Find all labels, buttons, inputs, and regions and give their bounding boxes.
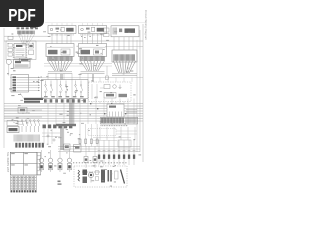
wire: module3 feed xyxy=(106,66,108,76)
socket X3 xyxy=(58,163,62,170)
label: option note xyxy=(119,94,128,97)
wire: HL4 leads xyxy=(69,150,71,172)
label: K0 mark xyxy=(29,45,32,47)
label: U12 die xyxy=(95,51,99,54)
wire: U3 feed line xyxy=(105,46,143,48)
label: J2b mark xyxy=(21,59,29,61)
relay K6 xyxy=(7,121,18,126)
wire: solenoid tails xyxy=(99,159,134,165)
label: U4 pin rows xyxy=(16,49,25,56)
wire: M1 lead xyxy=(8,64,10,75)
wire: dashed box drops xyxy=(100,78,132,83)
node: T1 tick row xyxy=(48,72,72,74)
diode D2 xyxy=(8,48,12,52)
connector J2b xyxy=(20,58,31,61)
wire: U2 risers xyxy=(83,23,103,26)
wire: option box stubs xyxy=(92,84,104,99)
connector J4 hatch xyxy=(15,64,28,67)
motor M1 xyxy=(6,59,11,64)
label: A2 text block xyxy=(81,50,91,55)
capacitor C8 xyxy=(96,171,99,175)
connector J8 comb right xyxy=(126,118,137,123)
wire: right lower drops xyxy=(100,127,135,140)
wire: U3 drops xyxy=(114,37,133,50)
lamp E2 xyxy=(53,139,55,141)
relay K8 xyxy=(115,171,119,179)
transformer T3 winding hatch xyxy=(114,54,135,61)
controller frame xyxy=(6,41,36,60)
lamp HL1 xyxy=(39,158,43,162)
sensor B1 xyxy=(74,145,82,153)
label: B2 text xyxy=(109,106,116,108)
legend table grid xyxy=(10,152,37,175)
label: harness callout row1 xyxy=(24,98,43,100)
label: X1 mark xyxy=(40,165,43,168)
wire: right vertical bus xyxy=(139,30,141,152)
lamp HL3 xyxy=(58,158,62,162)
capacitor C1 xyxy=(8,53,12,56)
ground symbol xyxy=(119,85,122,89)
lamp HL4 xyxy=(67,158,71,162)
label: accessory B text xyxy=(101,170,105,183)
wire: harness bundle T1 down xyxy=(61,74,63,80)
wire: U2 drops xyxy=(83,34,102,44)
terminal column TB0 cells xyxy=(37,156,41,175)
connector U4 pin ticks xyxy=(13,45,27,58)
motor M3 xyxy=(88,172,93,177)
wire: right mid stubs xyxy=(93,131,137,141)
svg-text:Circuit Wiring Diagram: Circuit Wiring Diagram xyxy=(144,10,148,41)
module U2 top box xyxy=(79,26,107,34)
lamp E1 xyxy=(47,135,49,137)
wire: page right border xyxy=(142,24,144,162)
wire: solenoid tick marks xyxy=(98,150,136,152)
label: J1 note xyxy=(30,26,36,28)
module U1 top box xyxy=(48,26,76,34)
wire: M3 stem xyxy=(90,178,92,183)
fuse box F10 xyxy=(18,108,27,114)
label: accessory A text upper xyxy=(83,170,88,176)
label: diag text xyxy=(15,61,21,63)
module diag box xyxy=(14,60,31,69)
label: accessory marks xyxy=(58,181,62,185)
option box 2 (dashed) xyxy=(88,129,116,136)
label: B1 xyxy=(75,146,80,149)
wire: T1 fan-out xyxy=(48,61,72,71)
switch row S20-S24 xyxy=(21,120,40,132)
connector J6 feet row xyxy=(44,99,86,102)
timer U6 xyxy=(104,93,116,99)
wire: right vertical bus 2 xyxy=(136,40,138,152)
wire: SW1 dividers xyxy=(57,80,72,99)
wire: HL2 leads xyxy=(50,150,52,172)
connector U2 pin comb xyxy=(81,34,104,36)
label: U6 text xyxy=(106,94,114,97)
terminal strip TB1 ladder comb xyxy=(11,176,37,190)
label: X4 mark xyxy=(68,165,71,168)
diode D1 xyxy=(8,44,12,48)
label: U11 die xyxy=(63,51,67,54)
sensor B0 xyxy=(64,144,71,150)
wire: left lower links xyxy=(42,129,60,144)
wire: lower drops xyxy=(80,124,97,147)
wire: mid horizontal link xyxy=(10,77,143,79)
module B2 box xyxy=(107,104,124,117)
lamp HL2 xyxy=(48,158,52,162)
wire: main harness bus band xyxy=(4,104,143,122)
terminal column TB0 xyxy=(37,152,41,175)
wire: center bundle lower xyxy=(61,124,64,150)
wire: solenoid feeds xyxy=(99,140,134,155)
resistor R1 xyxy=(8,36,13,39)
wire: harness bundle T2 down xyxy=(93,74,94,82)
buzzer BZ1 xyxy=(113,85,117,89)
label: B0 xyxy=(65,145,69,148)
relay K5 xyxy=(104,85,110,89)
accessory option box (dashed) xyxy=(74,166,127,187)
wire: page left border xyxy=(3,28,5,148)
contact S2 xyxy=(92,27,95,31)
transformer T2 winding hatch xyxy=(80,56,105,61)
connector J2 pin hatch xyxy=(18,31,35,35)
module A1 main box xyxy=(46,44,74,57)
wire: option box feed drops xyxy=(92,102,124,104)
connector J3 pins xyxy=(113,28,116,35)
wire: page top rule xyxy=(45,22,146,24)
connector U1 pin comb xyxy=(50,34,73,36)
connector block J5 xyxy=(11,75,29,93)
wire: left harness lines xyxy=(4,110,42,117)
transformer T1 winding hatch xyxy=(48,56,73,61)
label: SW1 terminal ids xyxy=(44,96,84,97)
socket X2 xyxy=(49,163,53,170)
label: accessory A text lower xyxy=(83,177,88,184)
switch contacts S10-S15 xyxy=(45,81,83,97)
socket X1 xyxy=(40,163,44,170)
label: table cell headers xyxy=(11,153,28,165)
module U3 top box xyxy=(111,26,139,37)
fuse F2 xyxy=(86,28,90,30)
IC U11 xyxy=(61,49,70,55)
svg-text:S.E. PARTS LIST: S.E. PARTS LIST xyxy=(6,152,10,173)
wire: inter-module links xyxy=(44,64,112,67)
option box (dashed) xyxy=(89,82,132,102)
label: F10 xyxy=(20,109,25,112)
wire: bus vertical drops xyxy=(48,99,134,125)
connector J10 dark row xyxy=(15,143,44,148)
inductor L1 (vertical coil) xyxy=(78,170,80,181)
wire: U1 risers xyxy=(52,23,72,26)
wire: bottom bus xyxy=(58,147,140,152)
connector J8 frame xyxy=(101,117,138,124)
legend table frame xyxy=(10,152,37,175)
label: harness bar xyxy=(56,124,76,126)
wire: T2 fan-out xyxy=(81,61,105,71)
diode D10 xyxy=(84,157,88,163)
wire: left top bus xyxy=(4,35,48,37)
wire: T3 fan-out xyxy=(113,61,136,73)
relay K2 coil symbol xyxy=(81,28,84,31)
connector J8 comb xyxy=(101,118,124,123)
connector B2 pins xyxy=(110,112,122,117)
capacitor C6 xyxy=(104,34,110,37)
label: TB2 note rows xyxy=(126,110,137,113)
connector J12 row xyxy=(43,125,73,129)
wire: center dark bundle xyxy=(70,98,74,124)
connector J1 row xyxy=(17,27,38,29)
wire: top horizontal bus xyxy=(4,40,143,42)
label: harness callout row2 xyxy=(24,101,40,103)
PDF badge xyxy=(0,0,44,27)
label: X3 mark xyxy=(59,165,62,168)
diode D11 xyxy=(93,157,97,163)
wire: switch arcs xyxy=(12,119,26,124)
node: T2 tick row xyxy=(81,72,105,74)
connector J9 comb xyxy=(14,135,39,142)
contact S1 xyxy=(61,27,64,31)
socket X4 xyxy=(68,163,72,170)
wire: D10 D11 leads xyxy=(86,146,95,168)
label: unit U3 text xyxy=(125,28,136,33)
ECU box xyxy=(7,127,19,133)
wire: HL3 leads xyxy=(59,150,61,172)
wire: callout leader xyxy=(20,93,24,99)
fuse F1 xyxy=(56,28,60,30)
label: J8 id row xyxy=(101,125,129,127)
capacitor C9 xyxy=(96,177,99,181)
wire: J2 fan to U4 xyxy=(19,35,35,46)
label: M3 mark xyxy=(90,174,92,176)
module A3 main box xyxy=(112,50,137,62)
connector J5 pin rows xyxy=(13,76,41,91)
capacitor C5 xyxy=(104,28,110,32)
IC U4 xyxy=(14,44,26,59)
label: accessory id dashes xyxy=(73,162,127,164)
label: X2 mark xyxy=(49,165,52,168)
crystal Y0 xyxy=(29,50,34,55)
wire: fan to switch-bank drops xyxy=(48,73,88,80)
node: T3 tick row xyxy=(112,74,137,76)
label: D10 band xyxy=(85,158,87,160)
label: unit U2 text xyxy=(97,28,104,32)
relay K1 coil symbol xyxy=(50,28,53,31)
wire: HL1 leads xyxy=(41,150,43,172)
label: ECU text xyxy=(9,128,18,131)
label: D11 band xyxy=(94,158,96,160)
switch bank box SW1 xyxy=(42,80,89,99)
label: accessory C bar1 xyxy=(108,170,110,182)
capacitor C7 xyxy=(106,76,109,80)
label: unit U1 text xyxy=(66,28,73,32)
label: miscellaneous reference designators xyxy=(7,29,141,186)
terminal strip TB1 feet xyxy=(11,190,37,192)
cable: diagonal bundle xyxy=(121,170,125,184)
junction box JB1 xyxy=(118,140,131,147)
label: U4 text xyxy=(16,45,23,47)
relay K3 xyxy=(119,29,122,33)
label: bottom id row xyxy=(82,171,100,173)
fuse row F20-F23 xyxy=(79,139,98,144)
wire: U1 drops xyxy=(52,34,71,44)
label: A1 text block xyxy=(48,50,58,55)
label: accessory C bar2 xyxy=(110,170,112,182)
node: bus junction dots xyxy=(90,103,126,114)
solenoid row Y1-Y8 xyxy=(98,155,135,159)
IC U12 xyxy=(94,49,103,55)
module A2 main box xyxy=(79,44,107,57)
relay K0 xyxy=(29,44,34,48)
